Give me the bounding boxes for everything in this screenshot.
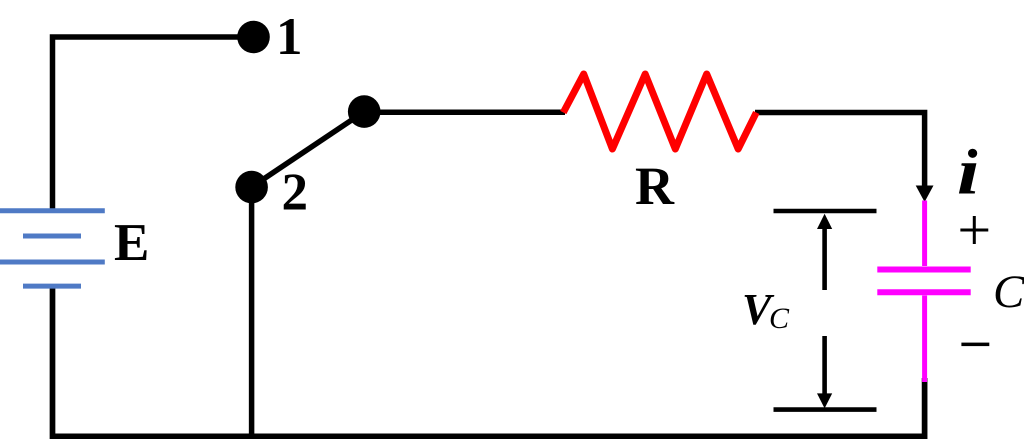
- svg-text:C: C: [993, 266, 1024, 318]
- svg-text:1: 1: [276, 8, 303, 66]
- svg-text:C: C: [769, 302, 790, 335]
- svg-text:2: 2: [282, 164, 309, 222]
- svg-text:E: E: [114, 214, 149, 272]
- svg-text:R: R: [635, 156, 675, 216]
- svg-text:+: +: [957, 197, 991, 263]
